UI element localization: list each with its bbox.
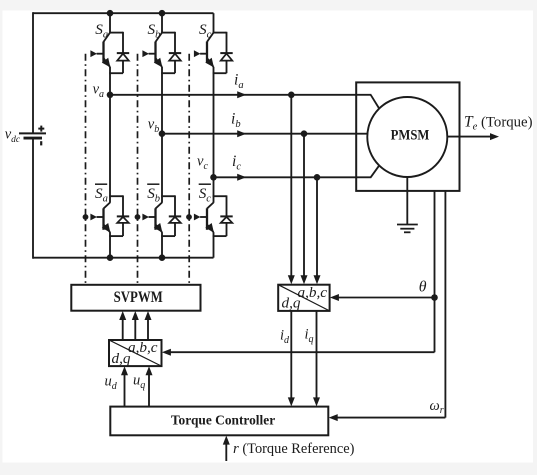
wire i_d to torque controller (290, 311, 292, 399)
label i_d (280, 328, 290, 347)
label i_a (234, 72, 244, 91)
label u_d (105, 374, 118, 393)
label a,b,c (abc-dq block) (298, 284, 328, 301)
wire phase a stub into motor (356, 95, 379, 109)
diode Da' (antiparallel, lower) (117, 195, 129, 236)
arrow theta into abc-dq block (330, 294, 339, 301)
wire i_a to transform (290, 95, 292, 277)
PMSM enclosure box (356, 82, 459, 190)
transistor S̄c (IGBT) (194, 203, 214, 233)
diode Da (antiparallel, upper) (117, 32, 129, 73)
label v_c (197, 154, 208, 172)
diode Dc' (antiparallel, lower) (220, 195, 232, 236)
transistor Sa (IGBT) (90, 33, 110, 68)
transistor Sb (IGBT) (142, 33, 162, 68)
label S_a (95, 21, 108, 41)
wire top DC rail (33, 12, 214, 14)
wire phase b to PMSM (162, 133, 368, 135)
wire tap to diode top S̄b (161, 195, 175, 197)
transistor S̄b (IGBT) (142, 203, 162, 233)
svg-text:r (Torque Reference): r (Torque Reference) (233, 441, 355, 457)
wire collector S̄c from phase node (213, 177, 215, 203)
svg-text:PMSM: PMSM (391, 127, 430, 144)
wire omega_r to torque controller (335, 417, 445, 419)
node i_c tap (314, 174, 321, 181)
node theta junction (431, 294, 438, 301)
label Torque Controller (171, 413, 275, 428)
label i_c (232, 153, 241, 172)
diode Dc (antiparallel, upper) (220, 32, 232, 73)
wire phase c to PMSM (214, 176, 372, 178)
label S_b (148, 21, 161, 41)
wire gate control line a (dash-dot from SVPWM) (85, 54, 87, 285)
wire theta sensor vertical (434, 191, 436, 352)
node v_c (210, 174, 217, 181)
wire collector Sb from top rail (161, 13, 163, 32)
node top rail / leg a junction (107, 10, 114, 17)
arrow omega_r into torque controller (329, 414, 338, 421)
label a,b,c (dq-abc block) (128, 339, 158, 356)
svg-text:a,b,c: a,b,c (128, 339, 158, 356)
svg-text:d,q: d,q (282, 295, 301, 312)
arrow u_d into transform (121, 366, 128, 375)
arrow torque output (490, 133, 499, 140)
arrow i_q into torque controller (313, 397, 320, 406)
wire emitter Sa down to phase node (109, 67, 111, 95)
wire u_d from torque controller (124, 373, 126, 407)
svg-text:Torque Controller: Torque Controller (171, 413, 275, 428)
svg-text:θ: θ (419, 279, 427, 296)
wire tap to diode bottom S̄c (213, 235, 227, 237)
label u_q (133, 373, 145, 392)
svg-text:SVPWM: SVPWM (114, 289, 163, 306)
node v_b (159, 130, 166, 137)
wire emitter S̄b to bottom rail (161, 232, 163, 258)
node i_b tap (301, 130, 308, 137)
label d,q (abc-dq block) (282, 295, 301, 312)
wire tap to diode top S̄a (109, 195, 123, 197)
wire left DC bus upper segment (32, 12, 34, 133)
wire u_q from torque controller (148, 373, 150, 407)
wire phase b stub into motor (356, 133, 368, 135)
node v_a (107, 92, 114, 99)
node gate junction S̄b (135, 214, 141, 220)
wire collector S̄b from phase node (161, 134, 163, 203)
wire theta to abc-dq block (336, 297, 435, 299)
label - polarity (40, 141, 42, 145)
wire tap to diode bottom Sa (109, 72, 123, 74)
arrow u_q into transform (146, 366, 153, 375)
wire tap to diode bottom Sc (213, 72, 227, 74)
diode Db' (antiparallel, lower) (169, 195, 181, 236)
arrow into SVPWM 1 (119, 311, 126, 320)
wire tap to diode bottom S̄a (109, 235, 123, 237)
label theta (419, 279, 427, 296)
block abc to dq transform (278, 285, 329, 311)
wire gate control line c (dash-dot from SVPWM) (188, 54, 190, 285)
label i_q (305, 327, 314, 346)
wire tap to diode top Sb (161, 32, 175, 34)
wire emitter S̄a to bottom rail (109, 232, 111, 258)
label SVPWM (114, 289, 163, 306)
block Torque Controller (110, 407, 328, 436)
transistor Sc (IGBT) (194, 33, 214, 68)
wire theta to dq-abc block (168, 351, 435, 353)
wire tap to diode bottom Sb (161, 72, 175, 74)
wire transform output 3 to SVPWM (147, 318, 149, 341)
wire emitter Sc down to phase node (213, 67, 215, 177)
wire collector Sa from top rail (109, 13, 111, 32)
label d,q (dq-abc block) (112, 350, 131, 367)
wire i_c to transform (316, 177, 318, 277)
node i_a tap (288, 92, 295, 99)
arrow into SVPWM 3 (145, 311, 152, 320)
label T_e (Torque) (464, 113, 533, 132)
node bottom rail / leg a junction (107, 254, 114, 261)
current arrow i_a (237, 91, 246, 98)
arrow torque reference into controller (223, 436, 230, 445)
motor PMSM circle (367, 97, 447, 177)
wire transform output 1 to SVPWM (122, 318, 124, 341)
wire phase a to PMSM (110, 94, 371, 96)
current arrow i_b (237, 130, 246, 137)
wire i_q to torque controller (316, 311, 318, 399)
battery Vdc (19, 133, 46, 138)
label r (Torque Reference) (233, 441, 355, 457)
wire tap to diode bottom S̄b (161, 235, 175, 237)
label v_a (93, 82, 104, 100)
wire motor neutral to ground (406, 177, 408, 225)
arrow i_a into transform (288, 275, 295, 284)
label omega_r (430, 398, 444, 416)
arrow i_d into torque controller (288, 397, 295, 406)
wire left DC bus lower segment (32, 138, 34, 259)
label v_dc (5, 127, 21, 145)
wire omega_r sensor vertical (444, 191, 446, 418)
wire collector S̄a from phase node (109, 95, 111, 203)
arrow i_c into transform (314, 275, 321, 284)
label i_b (231, 111, 241, 130)
wire emitter Sb down to phase node (161, 67, 163, 134)
wire i_b to transform (303, 134, 305, 277)
label S_c (199, 21, 212, 41)
label S̄_c (199, 184, 212, 204)
wire emitter S̄c to bottom rail (213, 232, 215, 258)
node top rail / leg b junction (159, 10, 166, 17)
wire tap to diode top S̄c (213, 195, 227, 197)
arrow into SVPWM 2 (132, 311, 139, 320)
label + polarity (38, 126, 44, 132)
wire torque output (447, 136, 491, 138)
ground (397, 225, 418, 233)
label v_b (148, 117, 159, 135)
arrow theta into dq-abc block (162, 349, 171, 356)
label S̄_a (95, 184, 108, 204)
svg-text:a,b,c: a,b,c (298, 284, 328, 301)
wire collector Sc from top rail (213, 13, 215, 32)
wire tap to diode top Sc (213, 32, 227, 34)
wire phase c stub into motor (356, 165, 379, 177)
wire tap to diode top Sa (109, 32, 123, 34)
label S̄_b (147, 184, 160, 204)
node gate junction S̄a (83, 214, 89, 220)
wire bottom DC rail (33, 257, 214, 259)
current arrow i_c (237, 174, 246, 181)
transistor S̄a (IGBT) (90, 203, 110, 233)
node gate junction S̄c (186, 214, 192, 220)
svg-text:d,q: d,q (112, 350, 131, 367)
wire gate control line b (dash-dot from SVPWM) (137, 54, 139, 285)
arrow i_b into transform (301, 275, 308, 284)
block dq to abc transform (109, 340, 162, 366)
wire transform output 2 to SVPWM (134, 318, 136, 341)
block SVPWM (71, 285, 200, 311)
diode Db (antiparallel, upper) (169, 32, 181, 73)
label PMSM (391, 127, 430, 144)
wire torque reference input (225, 442, 227, 461)
node bottom rail / leg b junction (159, 254, 166, 261)
